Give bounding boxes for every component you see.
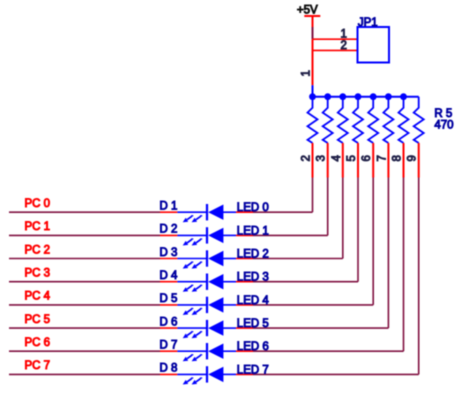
svg-text:470: 470: [434, 120, 453, 132]
svg-text:LED 2: LED 2: [237, 248, 269, 260]
svg-text:D 4: D 4: [160, 270, 179, 282]
svg-text:D 1: D 1: [160, 201, 178, 213]
svg-text:3: 3: [316, 155, 328, 161]
svg-text:LED 3: LED 3: [237, 272, 269, 284]
svg-text:1: 1: [341, 29, 347, 41]
svg-text:R 5: R 5: [434, 108, 452, 120]
svg-text:8: 8: [392, 155, 404, 161]
svg-text:PC 2: PC 2: [25, 244, 51, 256]
svg-text:PC 0: PC 0: [25, 198, 51, 210]
svg-text:D 5: D 5: [160, 293, 178, 305]
svg-text:9: 9: [407, 155, 419, 161]
svg-text:D 3: D 3: [160, 247, 178, 259]
svg-text:D 6: D 6: [160, 316, 178, 328]
svg-text:PC 3: PC 3: [25, 268, 51, 280]
svg-text:2: 2: [301, 155, 313, 161]
svg-text:6: 6: [361, 155, 373, 161]
svg-text:LED 5: LED 5: [237, 318, 269, 330]
svg-text:LED 6: LED 6: [237, 341, 269, 353]
svg-text:D 7: D 7: [160, 340, 178, 352]
svg-text:PC 4: PC 4: [25, 291, 51, 303]
svg-text:D 8: D 8: [160, 363, 178, 375]
svg-text:PC 1: PC 1: [25, 221, 51, 233]
svg-text:JP1: JP1: [358, 17, 378, 29]
svg-text:PC 5: PC 5: [25, 314, 51, 326]
svg-text:PC 7: PC 7: [25, 360, 51, 372]
svg-text:1: 1: [300, 70, 312, 76]
svg-text:LED 0: LED 0: [237, 202, 269, 214]
svg-text:2: 2: [341, 40, 347, 52]
svg-text:PC 6: PC 6: [25, 337, 51, 349]
svg-text:4: 4: [331, 155, 343, 162]
svg-text:+5V: +5V: [297, 5, 318, 17]
svg-text:7: 7: [376, 155, 388, 161]
svg-text:D 2: D 2: [160, 224, 178, 236]
svg-text:LED 7: LED 7: [237, 364, 269, 376]
svg-text:5: 5: [346, 155, 358, 161]
svg-text:LED 4: LED 4: [237, 295, 270, 307]
svg-text:LED 1: LED 1: [237, 225, 269, 237]
